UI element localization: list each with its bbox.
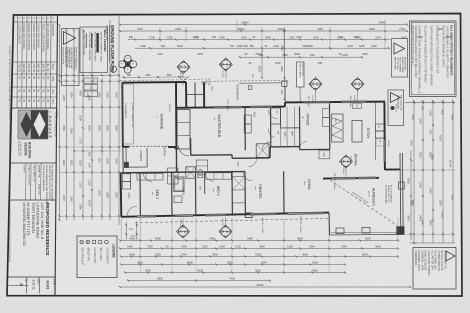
window master bbox=[214, 106, 242, 109]
logo box INHOUSE BUILDING DESIGN bbox=[11, 107, 56, 109]
house right wall bbox=[383, 102, 386, 170]
window tag W11 bbox=[177, 61, 190, 74]
bath fixtures bbox=[174, 177, 184, 192]
top dimension row D bbox=[135, 47, 389, 49]
eave dashed line below house bbox=[135, 218, 328, 222]
balustrade warning box bbox=[392, 39, 408, 78]
bed wing partitions bbox=[139, 173, 141, 217]
master door arc bbox=[269, 110, 278, 119]
dining to alfresco stub bbox=[385, 168, 400, 170]
bed3 door arc bbox=[205, 172, 214, 181]
sliding door theater/living bbox=[250, 213, 276, 216]
top dimension row A bbox=[120, 24, 407, 26]
garage store dashed bbox=[123, 84, 134, 144]
pantry shelves bbox=[332, 114, 343, 142]
theater cupboard cells bbox=[232, 175, 245, 177]
bath door arc bbox=[174, 172, 182, 180]
window bath bbox=[175, 214, 193, 217]
bed2 door arc bbox=[143, 172, 152, 181]
window tag W09 bbox=[219, 58, 232, 71]
bottom dimension rows bbox=[120, 240, 398, 242]
office right wall bbox=[329, 102, 331, 149]
top dimension row C bbox=[128, 39, 390, 41]
alfresco slab bottom bbox=[330, 233, 403, 236]
window tag W05 bbox=[351, 78, 364, 91]
alfresco piers bbox=[336, 228, 344, 234]
patio roof dashed diagonal bbox=[330, 180, 397, 226]
fridge space bbox=[376, 139, 384, 147]
left dimension columns bbox=[59, 25, 61, 220]
theater door arc bbox=[243, 172, 252, 181]
revision table bbox=[13, 21, 57, 23]
veranda beam line bbox=[239, 82, 282, 84]
hall wall below master bbox=[190, 138, 192, 155]
notes box with warning triangle bbox=[62, 29, 80, 86]
top extension stubs bbox=[159, 27, 161, 42]
laundry/hall wall left of bedwing bbox=[121, 172, 245, 173]
left columns top connector bbox=[60, 74, 121, 77]
left extension lines bbox=[60, 80, 122, 82]
linen cupboard bbox=[168, 168, 179, 184]
kitchen top wall bbox=[284, 102, 286, 106]
top dimension row E bbox=[240, 56, 362, 58]
ens / robe walls bbox=[244, 107, 246, 150]
sliding door dining-alfresco bbox=[332, 177, 356, 180]
right extension lines bbox=[405, 101, 455, 103]
master robe cupboards bbox=[177, 110, 190, 150]
bed3 robe cells bbox=[206, 173, 232, 179]
bottom extension lines bbox=[120, 218, 122, 241]
sliding door living bbox=[288, 212, 324, 215]
store / wc cells behind garage bbox=[185, 82, 187, 108]
laundry door arc bbox=[127, 206, 137, 216]
entry door arc bbox=[179, 146, 190, 157]
veranda sd master bbox=[250, 105, 272, 108]
alfresco corner pier bbox=[397, 227, 404, 235]
left wall bed wing bbox=[120, 173, 123, 217]
oven cells bbox=[376, 124, 384, 131]
laundry fixtures bbox=[123, 174, 131, 182]
window tag W04 dining bbox=[340, 155, 353, 168]
bed2 robe cells bbox=[137, 174, 163, 180]
bottom wall bed wing + living bbox=[121, 213, 329, 217]
window tag W02 bbox=[219, 225, 232, 238]
window bed2 bbox=[137, 215, 156, 218]
ens fixtures bbox=[256, 144, 269, 158]
job number boxes bbox=[7, 276, 55, 278]
specification notes box bottom right bbox=[413, 248, 456, 290]
window kitchen W06 bbox=[303, 101, 330, 104]
porch outline bbox=[125, 148, 127, 167]
window tag W01 bbox=[177, 225, 190, 238]
garage-store door arc bbox=[183, 77, 189, 86]
living/alfresco step wall bbox=[328, 213, 331, 235]
bottom outer dimension row bbox=[120, 286, 410, 288]
window kitchen W05 bbox=[341, 100, 366, 103]
top dimension row B bbox=[120, 30, 407, 32]
hws callout bbox=[297, 62, 305, 87]
bottom row stubs bbox=[139, 241, 141, 273]
entry/porch left wall bbox=[122, 147, 124, 173]
elevation marker cluster bbox=[119, 56, 136, 73]
garage walls bbox=[121, 83, 124, 147]
veranda posts bbox=[248, 86, 252, 90]
kitchen bench + sink bbox=[375, 102, 377, 160]
master suite top wall bbox=[176, 107, 285, 108]
door right wall bbox=[383, 140, 386, 162]
veranda roof dashed edge bbox=[202, 80, 290, 83]
right dimension columns bbox=[413, 103, 415, 243]
porch mini dim lines bbox=[125, 222, 127, 240]
hall-robe door arc bbox=[262, 142, 270, 150]
alfresco top wall (dining sd) bbox=[323, 177, 379, 180]
title strip divider bbox=[55, 15, 58, 296]
island bench bbox=[352, 121, 362, 143]
office desk cells bbox=[323, 109, 330, 118]
drawing info box bbox=[9, 199, 56, 201]
smoke alarm note box bbox=[388, 90, 404, 126]
diamond leaders bbox=[182, 218, 184, 226]
REA energy efficiency notes box bbox=[410, 21, 457, 97]
wc fixture bbox=[198, 169, 203, 175]
step note boxes bbox=[84, 78, 98, 84]
window bed3 bbox=[205, 214, 226, 217]
window tag W06 bbox=[309, 78, 322, 91]
mid vertical dims bbox=[261, 50, 263, 78]
alfresco slab right bbox=[399, 153, 402, 233]
wall legend box bbox=[80, 27, 108, 73]
theater corner notch bbox=[245, 213, 252, 218]
legend box bbox=[77, 236, 117, 278]
